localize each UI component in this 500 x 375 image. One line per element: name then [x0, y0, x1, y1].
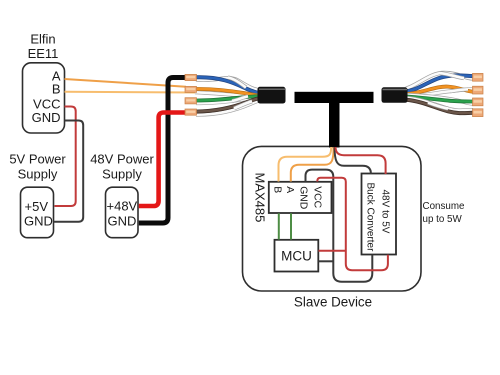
left ethernet cable [185, 74, 286, 115]
twist overlay white over brown (right) [428, 103, 448, 109]
svg-text:GND: GND [32, 110, 61, 125]
wire white mate of blue pair (right) [406, 73, 473, 89]
wire orange of orange pair [196, 89, 263, 96]
wire A (orange) stem to MAX485 A [291, 147, 334, 182]
svg-text:+5V: +5V [25, 199, 49, 214]
svg-text:GND: GND [24, 213, 53, 228]
wire +48V (thick red) to crimp 4 [139, 113, 186, 207]
svg-text:Consume: Consume [423, 201, 465, 212]
wire VCC loop MAX485 VCC to buck converter out+ [317, 178, 388, 271]
svg-text:Elfin: Elfin [30, 32, 55, 47]
cable jacket right [382, 87, 408, 103]
svg-text:Slave Device: Slave Device [294, 295, 372, 310]
twist overlay white over blue [228, 78, 246, 88]
wire white mate of brown pair (right) [406, 98, 473, 111]
power supply PS2 48V box [106, 187, 139, 238]
wire blue of blue pair (right) [406, 75, 473, 91]
twist overlay white over orange (right) [450, 89, 468, 91]
svg-text:GND: GND [108, 213, 137, 228]
wire white mate of brown pair [196, 100, 264, 115]
wire orange of orange pair (right) [406, 87, 473, 94]
svg-text:A: A [284, 186, 295, 193]
crimp ferrule 2 [185, 86, 197, 92]
svg-text:+48V: +48V [107, 199, 138, 214]
svg-text:B: B [271, 186, 282, 193]
wire blue of blue pair [196, 77, 263, 93]
wire B (light orange) Elfin B to orange pair white [65, 91, 196, 94]
wire white mate of orange pair (right) [406, 89, 473, 96]
power supply PS1 5V box [21, 187, 54, 238]
svg-text:MAX485: MAX485 [252, 173, 267, 223]
crimp ferrule 1 [185, 74, 197, 80]
IC U2 MAX485 box [269, 182, 332, 213]
svg-text:48V to 5V: 48V to 5V [380, 190, 391, 234]
wire 48V GND (dark) stem to buck converter [335, 147, 371, 174]
wire GND (dark) Elfin GND to 5V GND [54, 121, 84, 222]
green wire MAX485 A to MCU [290, 213, 292, 239]
svg-text:GND: GND [298, 186, 309, 209]
slave device enclosure [243, 146, 422, 291]
wire MCU VCC (red) [319, 250, 346, 252]
twist overlay white over blue (right) [440, 73, 464, 78]
wire brown of brown pair (right) [406, 100, 473, 113]
wire MCU GND (dark) [319, 260, 334, 262]
cable jacket left [258, 87, 286, 104]
module U1 Elfin EE11 box [23, 63, 65, 133]
svg-text:Buck Converter: Buck Converter [365, 183, 376, 253]
wire VCC (red) Elfin VCC to +5V [55, 107, 76, 207]
svg-text:Supply: Supply [18, 167, 58, 182]
wire white mate of green pair (right) [406, 95, 473, 104]
crimp ferrule 2 (right) [473, 86, 484, 94]
green wire MAX485 B to MCU [278, 213, 280, 239]
svg-text:up to 5W: up to 5W [423, 214, 463, 225]
svg-text:5V Power: 5V Power [9, 152, 66, 167]
buck converter U4 box [362, 174, 397, 255]
crimp ferrule 4 [185, 109, 197, 115]
twist overlay white over green [232, 96, 248, 101]
T splice stem [329, 97, 340, 148]
T splice stem overlap redraw [329, 140, 340, 148]
crimp ferrule 4 (right) [473, 109, 484, 117]
crimp ferrule 3 [185, 98, 197, 104]
svg-text:EE11: EE11 [28, 46, 59, 61]
wire GND loop MAX485 GND to buck converter out- [306, 170, 373, 282]
svg-text:MCU: MCU [281, 249, 312, 264]
svg-text:48V Power: 48V Power [90, 152, 154, 167]
svg-text:B: B [52, 82, 61, 97]
T splice bar [295, 92, 374, 103]
wire white mate of orange pair [195, 92, 262, 95]
MCU U3 box [275, 240, 319, 272]
wire white mate of green pair [196, 98, 262, 103]
wire A (orange) Elfin A to crimp 2 [65, 79, 187, 87]
wire white mate of blue pair [196, 78, 262, 90]
crimp ferrule 1 (right) [473, 73, 484, 81]
twist overlay white over brown [234, 101, 252, 108]
svg-text:Supply: Supply [102, 167, 142, 182]
wire B (light orange) stem to MAX485 B [279, 147, 332, 182]
wire brown of brown pair [196, 98, 263, 111]
svg-text:VCC: VCC [311, 186, 322, 208]
wire green of green pair (right) [406, 97, 473, 102]
crimp ferrule 3 (right) [473, 98, 484, 106]
right ethernet cable [382, 73, 484, 117]
wire +48V (red) stem to buck converter [336, 147, 386, 174]
wire 48V GND (thick black) to crimp 1 [139, 78, 186, 224]
wire green of green pair [196, 96, 262, 100]
